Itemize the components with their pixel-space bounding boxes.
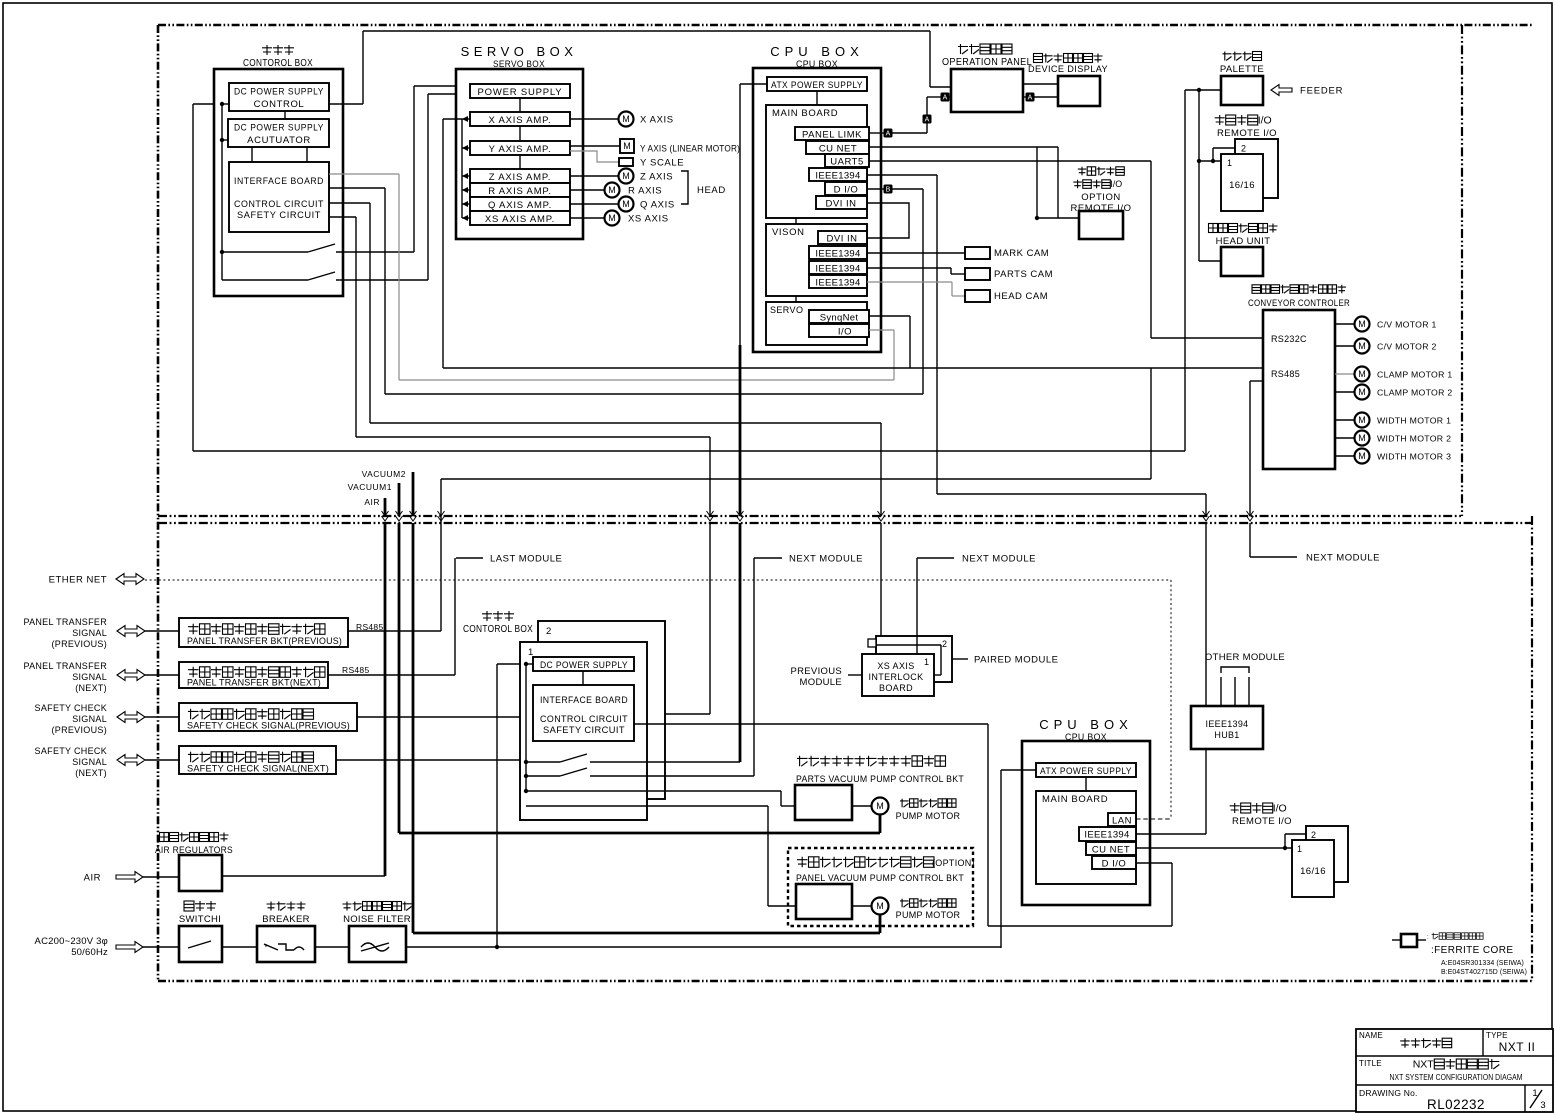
svg-text:DC POWER SUPPLY: DC POWER SUPPLY — [234, 123, 324, 134]
svg-text:X AXIS: X AXIS — [640, 115, 674, 126]
wire palette bus down — [1198, 90, 1200, 161]
svg-text:ACUTUATOR: ACUTUATOR — [247, 135, 311, 146]
wire bus to lower rail RS485 — [1150, 368, 1152, 479]
VISON box — [766, 224, 867, 296]
width motor 3 — [1335, 455, 1355, 457]
wire D I/O loop — [1136, 862, 1172, 864]
air arrow — [116, 872, 143, 883]
module 1 boundary (dash-dot) — [158, 25, 1532, 981]
safety check previous arrow — [117, 712, 145, 723]
servo/conveyor bus — [443, 367, 1262, 369]
cpu box outline (bottom) — [1022, 741, 1150, 905]
svg-text:M: M — [1358, 451, 1366, 461]
IEEE1394 port (vison 2) — [809, 261, 867, 274]
cpu box outline (top) — [753, 68, 881, 352]
option remote io title (JP) — [1078, 167, 1125, 176]
wire ac riser to dc supply — [496, 664, 498, 947]
wire Y amp to Z amp — [519, 155, 521, 169]
svg-text:Y AXIS (LINEAR MOTOR): Y AXIS (LINEAR MOTOR) — [640, 144, 740, 155]
XS AXIS AMP box — [470, 211, 570, 225]
svg-text:PANEL TRANSFER BKT(NEXT): PANEL TRANSFER BKT(NEXT) — [187, 678, 321, 689]
wire DVI loop — [867, 203, 909, 238]
wire head unit feed — [1198, 161, 1200, 261]
svg-text:M: M — [608, 213, 616, 223]
wire I/O drop (grey) — [869, 329, 894, 331]
ac wire chain — [222, 946, 257, 948]
safety switch 1 (control box) — [222, 251, 308, 253]
wire main board to vison — [795, 218, 797, 224]
wire next module left callout — [753, 558, 755, 776]
svg-text:DVI IN: DVI IN — [827, 234, 858, 245]
servo bus feed — [443, 118, 462, 120]
svg-text:M: M — [1358, 369, 1366, 379]
svg-text:3: 3 — [1540, 1100, 1545, 1111]
svg-text:MODULE: MODULE — [800, 677, 842, 688]
Y AXIS AMP box — [470, 141, 570, 155]
ether net dotted line — [145, 579, 1171, 581]
remote io title (JP) — [1215, 115, 1258, 125]
svg-text:SAFETY CHECK SIGNAL(PREVIOUS): SAFETY CHECK SIGNAL(PREVIOUS) — [187, 721, 350, 732]
CONVEYOR CONTROLER box — [1263, 310, 1335, 469]
svg-text:PANEL TRANSFER: PANEL TRANSFER — [23, 617, 107, 627]
vacuum1 line stub (top) — [398, 483, 401, 516]
svg-text:(NEXT): (NEXT) — [75, 768, 107, 778]
svg-text:NEXT MODULE: NEXT MODULE — [962, 554, 1036, 565]
wire panel pump motor return (bold) — [879, 915, 882, 933]
svg-text:Y SCALE: Y SCALE — [640, 158, 684, 169]
wire SynqNet drop — [869, 315, 910, 317]
svg-text:16/16: 16/16 — [1229, 180, 1255, 191]
svg-text:CPU BOX: CPU BOX — [770, 44, 864, 59]
wire interface board out 3 (to interlock rail) — [329, 202, 370, 204]
svg-text:LAST MODULE: LAST MODULE — [490, 554, 562, 565]
wire RS485 next / last module — [328, 674, 455, 676]
svg-text:RS485: RS485 — [1271, 369, 1300, 379]
REMOTE I/O box 2 (top) — [1235, 139, 1278, 198]
svg-text:MARK CAM: MARK CAM — [994, 248, 1049, 259]
svg-text:LAN: LAN — [1112, 816, 1132, 827]
wire power drop to switch row (bold) — [739, 451, 742, 516]
wire interface board out 1 (grey to cpu I/O) — [329, 173, 399, 175]
svg-text:I/O: I/O — [838, 327, 852, 338]
svg-text:2: 2 — [1241, 144, 1246, 154]
panel vacuum pump option box (dashed) — [788, 848, 973, 926]
svg-text:VISON: VISON — [772, 227, 805, 238]
svg-text:BREAKER: BREAKER — [262, 914, 310, 925]
svg-text::: : — [1427, 933, 1429, 940]
panel transfer bkt previous box — [179, 618, 348, 647]
vacuum1 riser (bold) — [398, 523, 401, 833]
svg-text:INTERFACE BOARD: INTERFACE BOARD — [540, 695, 628, 705]
clamp motor 2 — [1335, 391, 1355, 393]
svg-text:CONVEYOR CONTROLER: CONVEYOR CONTROLER — [1248, 298, 1350, 309]
wire air to riser — [222, 875, 385, 877]
wire control-to-actuator — [284, 111, 286, 119]
I/O port — [809, 324, 869, 337]
svg-text:M: M — [622, 171, 630, 181]
clamp motor 1 — [1335, 373, 1355, 375]
svg-text:OPTION: OPTION — [1081, 192, 1120, 203]
svg-text:M: M — [1358, 387, 1366, 397]
svg-text:SERVO: SERVO — [770, 305, 803, 315]
svg-text:HEAD: HEAD — [697, 185, 726, 196]
svg-text:AIR: AIR — [84, 873, 101, 884]
svg-text:1: 1 — [924, 657, 929, 667]
wire panel limk chain — [892, 132, 927, 134]
svg-text:C/V MOTOR 2: C/V MOTOR 2 — [1377, 342, 1437, 352]
svg-text:2: 2 — [546, 626, 551, 637]
REMOTE I/O box 1 (bottom) — [1292, 840, 1334, 897]
svg-text:CONTOROL BOX: CONTOROL BOX — [463, 624, 533, 635]
SynqNet port — [809, 310, 869, 323]
svg-text:SAFETY CHECK: SAFETY CHECK — [35, 703, 107, 713]
ferrite core A (panel limk) — [869, 132, 884, 134]
air riser (bold) — [384, 523, 387, 876]
wire vison to servo section — [795, 296, 797, 302]
HEAD bracket — [681, 171, 688, 204]
ferrite core B (D I/O) — [867, 188, 884, 190]
svg-text:I/O: I/O — [1258, 115, 1272, 127]
svg-text:M: M — [1358, 433, 1366, 443]
wire atx power feed (bottom) — [1001, 769, 1036, 771]
panel transfer previous arrow — [117, 626, 145, 637]
OPTION REMOTE I/O box — [1079, 211, 1123, 239]
POWER SUPPLY box — [470, 84, 570, 98]
X AXIS AMP box — [470, 112, 570, 126]
wire safety previous — [357, 716, 533, 718]
DEVICE DISPLAY box — [1058, 76, 1100, 106]
svg-text:I/O: I/O — [1273, 803, 1287, 815]
svg-text:R AXIS AMP.: R AXIS AMP. — [488, 186, 552, 197]
wire switch2 to servo power supply — [427, 94, 429, 280]
Q axis motor — [570, 203, 618, 205]
wire remote io 2 feed — [1212, 148, 1214, 161]
UART5 port — [825, 154, 869, 167]
svg-text:REMOTE I/O: REMOTE I/O — [1217, 128, 1277, 139]
INTERFACE BOARD box (bottom) — [533, 685, 634, 741]
wire D I/O to lower rail — [892, 188, 923, 190]
svg-text:DEVICE DISPLAY: DEVICE DISPLAY — [1028, 64, 1108, 75]
OPERATION PANEL box — [951, 69, 1023, 112]
control box 2 title (JP) — [482, 611, 514, 621]
xs axis interlock board box 2 — [876, 636, 952, 682]
svg-text:A: A — [925, 117, 930, 124]
wire dc to interface (bottom) — [582, 671, 584, 685]
ferrite core A (op panel left) — [941, 93, 950, 102]
D I/O port (bottom) — [1092, 856, 1136, 869]
svg-text:*: * — [264, 943, 267, 952]
MAIN BOARD box (bottom) — [1036, 791, 1136, 884]
svg-text:(OPTION): (OPTION) — [932, 858, 975, 868]
svg-text:XS AXIS: XS AXIS — [877, 661, 914, 671]
control box title (JP) — [262, 45, 294, 55]
safety switch 2 (bottom) — [526, 775, 560, 777]
other module bracket — [1221, 667, 1249, 673]
panel vacuum pump title (JP) — [797, 857, 934, 868]
PARTS CAM box — [867, 267, 951, 269]
safety check signal previous box — [179, 703, 357, 731]
svg-text:DC POWER SUPPLY: DC POWER SUPPLY — [540, 660, 628, 670]
wire UART5 to conveyor RS232C — [869, 160, 1151, 162]
width motor 1 — [1335, 419, 1355, 421]
SWITCHI box — [179, 926, 222, 962]
svg-text:M: M — [876, 801, 884, 811]
svg-text:IEEE1394: IEEE1394 — [815, 171, 860, 182]
PARTS VACUUM PUMP CONTROL BKT box — [795, 785, 852, 820]
svg-text:PAIRED MODULE: PAIRED MODULE — [974, 655, 1058, 666]
wire control box to palette loop (left) — [193, 103, 214, 105]
svg-text:16/16: 16/16 — [1300, 866, 1326, 877]
IEEE1394 port (vison 1) — [809, 246, 867, 259]
module 2 boundary (dash-dot) — [158, 516, 1532, 981]
R axis motor — [570, 189, 604, 191]
svg-text:M: M — [1358, 415, 1366, 425]
svg-text:PUMP MOTOR: PUMP MOTOR — [896, 910, 961, 920]
PANEL LIMK port — [795, 127, 869, 140]
svg-text:IEEE1394: IEEE1394 — [815, 278, 860, 289]
svg-text:RS232C: RS232C — [1271, 334, 1307, 344]
device display title (JP) — [1034, 54, 1103, 63]
svg-text:Z AXIS: Z AXIS — [640, 172, 673, 183]
wire switch1 to servo power supply — [413, 86, 415, 252]
svg-text:SIGNAL: SIGNAL — [72, 628, 107, 638]
svg-text:RS485: RS485 — [342, 665, 370, 675]
svg-text:NAME: NAME — [1359, 1031, 1383, 1040]
parts pump motor — [852, 805, 871, 807]
svg-text:PARTS CAM: PARTS CAM — [994, 269, 1053, 280]
svg-text:NXT SYSTEM CONFIGURATION DIAGA: NXT SYSTEM CONFIGURATION DIAGAM — [1390, 1072, 1523, 1082]
wire power supply to X amp — [519, 98, 521, 112]
svg-text:Q AXIS AMP.: Q AXIS AMP. — [488, 200, 552, 211]
svg-text:FEEDER: FEEDER — [1300, 86, 1343, 97]
svg-text:Y AXIS AMP.: Y AXIS AMP. — [489, 144, 552, 155]
air line stub (top) — [384, 498, 387, 516]
PANEL VACUUM PUMP CONTROL BKT box — [796, 884, 852, 919]
svg-text:RL02232: RL02232 — [1427, 1097, 1485, 1112]
paired module label — [952, 658, 968, 660]
wire IEEE1394 main to module chain — [867, 174, 937, 176]
svg-text:SWITCHI: SWITCHI — [179, 914, 221, 925]
DC POWER SUPPLY ACUTUATOR box — [228, 119, 329, 147]
svg-text:(PREVIOUS): (PREVIOUS) — [51, 725, 107, 735]
control box outline — [214, 69, 343, 296]
svg-text:SIGNAL: SIGNAL — [72, 757, 107, 767]
svg-text:UART5: UART5 — [830, 157, 863, 168]
svg-text:SERVO BOX: SERVO BOX — [461, 44, 578, 59]
Q AXIS AMP box — [470, 197, 570, 211]
wire cu net to remote io — [1136, 847, 1292, 849]
NOISE FILTER box — [349, 926, 406, 962]
svg-text:AIR: AIR — [364, 497, 380, 507]
HEAD UNIT box — [1221, 247, 1263, 276]
svg-text:A:E04SR301334 (SEIWA): A:E04SR301334 (SEIWA) — [1441, 958, 1524, 967]
IEEE1394 port (main) — [809, 168, 867, 181]
wire RS485 previous — [348, 630, 441, 632]
wire DC control to operation panel — [329, 103, 363, 105]
ferrite core A (vertical) — [923, 115, 932, 124]
svg-text:CU NET: CU NET — [1092, 845, 1130, 856]
svg-text:M: M — [622, 114, 630, 124]
svg-text:VACUUM2: VACUUM2 — [362, 469, 406, 479]
svg-text:PANEL TRANSFER BKT(PREVIOUS): PANEL TRANSFER BKT(PREVIOUS) — [187, 636, 342, 647]
svg-text:NXT: NXT — [1413, 1059, 1435, 1071]
svg-text:SAFETY CHECK: SAFETY CHECK — [35, 746, 107, 756]
svg-text:ATX POWER SUPPLY: ATX POWER SUPPLY — [771, 80, 863, 91]
wire interface bottom to cpu power — [634, 723, 988, 725]
wire long loop bottom — [193, 450, 1185, 452]
safety check next arrow — [117, 755, 145, 766]
svg-text:PANEL LIMK: PANEL LIMK — [802, 130, 862, 141]
operation panel title (JP) — [958, 44, 1012, 54]
ATX POWER SUPPLY box (bottom) — [1036, 763, 1136, 777]
svg-text:SynqNet: SynqNet — [820, 313, 859, 324]
svg-text:SAFETY CIRCUIT: SAFETY CIRCUIT — [237, 210, 321, 221]
svg-text:D I/O: D I/O — [1102, 859, 1127, 870]
svg-text:PREVIOUS: PREVIOUS — [791, 666, 843, 677]
svg-text:SIGNAL: SIGNAL — [72, 714, 107, 724]
svg-text:INTERLOCK: INTERLOCK — [868, 672, 923, 682]
svg-text::FERRITE CORE: :FERRITE CORE — [1431, 945, 1513, 956]
wire row to parts pump — [526, 790, 781, 792]
svg-text:IEEE1394: IEEE1394 — [1084, 830, 1129, 841]
IEEE1394 port (bottom) — [1079, 827, 1136, 841]
boundary crossing arrows — [382, 511, 389, 521]
svg-text:SAFETY CHECK SIGNAL(NEXT): SAFETY CHECK SIGNAL(NEXT) — [187, 764, 329, 775]
conveyor controller title (JP) — [1252, 285, 1346, 294]
svg-text:HEAD CAM: HEAD CAM — [994, 291, 1048, 302]
breaker title (JP) — [267, 902, 306, 911]
svg-text:A: A — [886, 131, 891, 138]
svg-text:B:E04ST402715D (SEIWA): B:E04ST402715D (SEIWA) — [1441, 967, 1527, 976]
svg-text:ETHER NET: ETHER NET — [49, 575, 107, 586]
CU NET port — [806, 141, 869, 154]
wire safety next — [336, 759, 520, 761]
svg-text:SIGNAL: SIGNAL — [72, 672, 107, 682]
wire X amp to Y amp — [519, 126, 521, 141]
svg-text:M: M — [623, 141, 631, 151]
BREAKER box — [257, 926, 315, 962]
wire actuator-to-interface — [251, 147, 253, 162]
Y scale — [570, 151, 619, 162]
panel pump motor — [852, 905, 871, 907]
PALETTE box — [1221, 76, 1263, 105]
svg-text:DVI IN: DVI IN — [826, 199, 857, 210]
Y axis linear motor — [570, 145, 620, 147]
svg-text:WIDTH MOTOR 1: WIDTH MOTOR 1 — [1377, 416, 1451, 426]
svg-text:CLAMP MOTOR 2: CLAMP MOTOR 2 — [1377, 388, 1453, 398]
control box left power bus — [221, 104, 223, 280]
svg-text:(NEXT): (NEXT) — [75, 683, 107, 693]
svg-text:X AXIS AMP.: X AXIS AMP. — [488, 115, 551, 126]
wire next module mid callout — [916, 558, 918, 654]
ferrite core A (panel right) — [1023, 96, 1026, 98]
AIR REGULATORS box — [179, 855, 222, 891]
C/V motor 2 — [1335, 345, 1355, 347]
safety check signal next box — [179, 746, 336, 774]
svg-text:HUB1: HUB1 — [1214, 730, 1239, 740]
svg-text:CPU BOX: CPU BOX — [1039, 717, 1133, 732]
svg-text:TITLE: TITLE — [1359, 1059, 1382, 1068]
svg-text:D I/O: D I/O — [834, 185, 859, 196]
REMOTE I/O box 1 (top) — [1221, 154, 1263, 211]
svg-text:IEEE1394: IEEE1394 — [1206, 719, 1249, 729]
svg-text:(PREVIOUS): (PREVIOUS) — [51, 639, 107, 649]
IEEE1394 port (vison 3) — [809, 275, 867, 288]
bottom control bus — [525, 664, 527, 791]
svg-text:DC POWER SUPPLY: DC POWER SUPPLY — [234, 87, 324, 98]
svg-text:IEEE1394: IEEE1394 — [815, 249, 860, 260]
svg-text:Z AXIS AMP.: Z AXIS AMP. — [489, 172, 551, 183]
svg-text:MAIN BOARD: MAIN BOARD — [772, 108, 838, 119]
wire parts pump motor return (bold) — [879, 815, 882, 833]
svg-text:CLAMP MOTOR 1: CLAMP MOTOR 1 — [1377, 370, 1453, 380]
wire LAN dashed — [1136, 818, 1171, 820]
module chain 1394 drop — [1205, 494, 1207, 516]
CU NET port (bottom) — [1086, 842, 1136, 855]
svg-text:CONTROL CIRCUIT: CONTROL CIRCUIT — [234, 199, 324, 210]
svg-text:PALETTE: PALETTE — [1220, 64, 1264, 75]
air regulators title (JP) — [160, 833, 229, 842]
svg-text:AC200~230V 3φ: AC200~230V 3φ — [35, 936, 108, 947]
INTERFACE BOARD / CONTROL CIRCUIT / SAFETY CIRCUIT box — [229, 162, 329, 232]
head unit title (JP) — [1209, 224, 1278, 233]
svg-text:2: 2 — [942, 639, 947, 649]
svg-text:M: M — [622, 199, 630, 209]
safety switch 2 (control box) — [222, 279, 308, 281]
servo box outline — [456, 69, 583, 239]
REMOTE I/O box 2 (bottom) — [1306, 826, 1348, 882]
SERVO section box — [766, 302, 867, 345]
svg-text:1: 1 — [1227, 158, 1232, 168]
svg-text:PARTS VACUUM PUMP CONTROL BKT: PARTS VACUUM PUMP CONTROL BKT — [796, 774, 964, 785]
svg-text:R AXIS: R AXIS — [628, 186, 662, 197]
svg-text:BOARD: BOARD — [879, 683, 913, 693]
svg-text:PANEL VACUUM PUMP CONTROL BKT: PANEL VACUUM PUMP CONTROL BKT — [796, 873, 964, 884]
wire panel to display — [1023, 83, 1058, 85]
wire CU NET to option remote — [869, 146, 1058, 148]
DC POWER SUPPLY box (bottom) — [533, 657, 634, 671]
R AXIS AMP box — [470, 183, 570, 197]
svg-text:CU NET: CU NET — [819, 144, 857, 155]
control box 2 outline (1) — [520, 642, 647, 820]
svg-text:TYPE: TYPE — [1486, 1031, 1508, 1040]
svg-text:POWER SUPPLY: POWER SUPPLY — [478, 87, 563, 98]
wire remote io 1 feed — [1199, 160, 1221, 162]
palette title (JP) — [1223, 52, 1262, 61]
svg-text:M: M — [1358, 319, 1366, 329]
ac arrow — [116, 942, 143, 953]
svg-text:A: A — [1028, 95, 1033, 102]
wire interface board out 4 (to bottom interface rail) — [329, 216, 356, 218]
D I/O port (main) — [825, 182, 867, 195]
remote io bottom title (JP) — [1230, 803, 1273, 813]
svg-text:PUMP MOTOR: PUMP MOTOR — [896, 811, 961, 821]
svg-text:INTERFACE BOARD: INTERFACE BOARD — [234, 176, 324, 187]
svg-text:OPERATION PANEL: OPERATION PANEL — [942, 57, 1032, 68]
wire interlock top link — [876, 644, 941, 646]
panel transfer bkt next box — [179, 662, 328, 688]
svg-text:OTHER MODULE: OTHER MODULE — [1205, 652, 1285, 663]
svg-text:HEAD UNIT: HEAD UNIT — [1216, 236, 1271, 247]
DC POWER SUPPLY CONTROL box — [229, 83, 329, 111]
DVI IN port (main) — [816, 196, 867, 209]
svg-text:2: 2 — [1311, 830, 1316, 840]
svg-text:XS AXIS AMP.: XS AXIS AMP. — [485, 214, 555, 225]
control box 2 outline (2) — [538, 621, 665, 799]
wire atx to main (bottom) — [1085, 777, 1087, 791]
wire interface board out 2 (to ferrite B rail) — [329, 187, 385, 189]
svg-text:CONTOROL BOX: CONTOROL BOX — [243, 58, 313, 69]
